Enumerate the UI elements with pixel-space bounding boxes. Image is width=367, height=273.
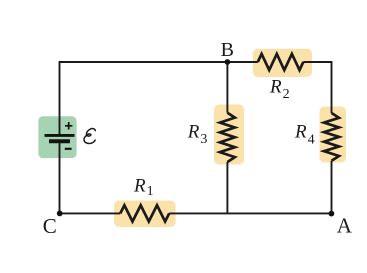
- svg-text:2: 2: [283, 87, 290, 102]
- wire battery to node C: [59, 142, 61, 215]
- svg-text:R: R: [187, 122, 200, 143]
- resistor R2 highlight box: [253, 49, 312, 77]
- resistor R4 zigzag (vertical): [324, 113, 339, 161]
- svg-text:C: C: [43, 214, 57, 238]
- battery polarity minus sign: [65, 148, 72, 150]
- wire node C to R1: [60, 212, 121, 214]
- wire R3 to bottom junction: [226, 162, 228, 213]
- resistor R2 zigzag: [258, 54, 304, 70]
- svg-text:4: 4: [308, 133, 315, 148]
- node C junction dot: [57, 211, 63, 217]
- svg-text:1: 1: [147, 184, 154, 199]
- node B junction dot: [225, 59, 231, 65]
- EMF label script epsilon: [84, 129, 95, 144]
- svg-text:3: 3: [200, 132, 207, 147]
- wire R1 to node A: [169, 212, 332, 214]
- svg-text:R: R: [294, 122, 307, 143]
- wire node B to R2: [227, 61, 257, 63]
- svg-text:A: A: [337, 214, 353, 238]
- resistor R1 highlight box: [114, 201, 176, 228]
- svg-text:R: R: [133, 176, 146, 197]
- wire R2 to top-right corner and down to R4: [303, 62, 331, 113]
- wire R4 to node A: [331, 161, 333, 214]
- resistor R3 highlight box: [214, 105, 244, 165]
- node A junction dot: [329, 211, 335, 217]
- battery top plate (positive, long): [45, 134, 75, 137]
- svg-text:R: R: [269, 77, 282, 98]
- resistor R1 zigzag: [120, 205, 169, 221]
- battery bottom plate (negative, short thick): [49, 139, 70, 143]
- battery polarity plus sign: [65, 122, 72, 129]
- battery E highlight box: [38, 116, 76, 158]
- wire left vertical upper (top-left corner to battery top plate): [60, 62, 229, 136]
- svg-text:B: B: [221, 39, 234, 61]
- resistor R3 zigzag (vertical): [220, 113, 235, 162]
- resistor R4 highlight box: [320, 107, 347, 163]
- wire node B down to R3: [226, 62, 228, 113]
